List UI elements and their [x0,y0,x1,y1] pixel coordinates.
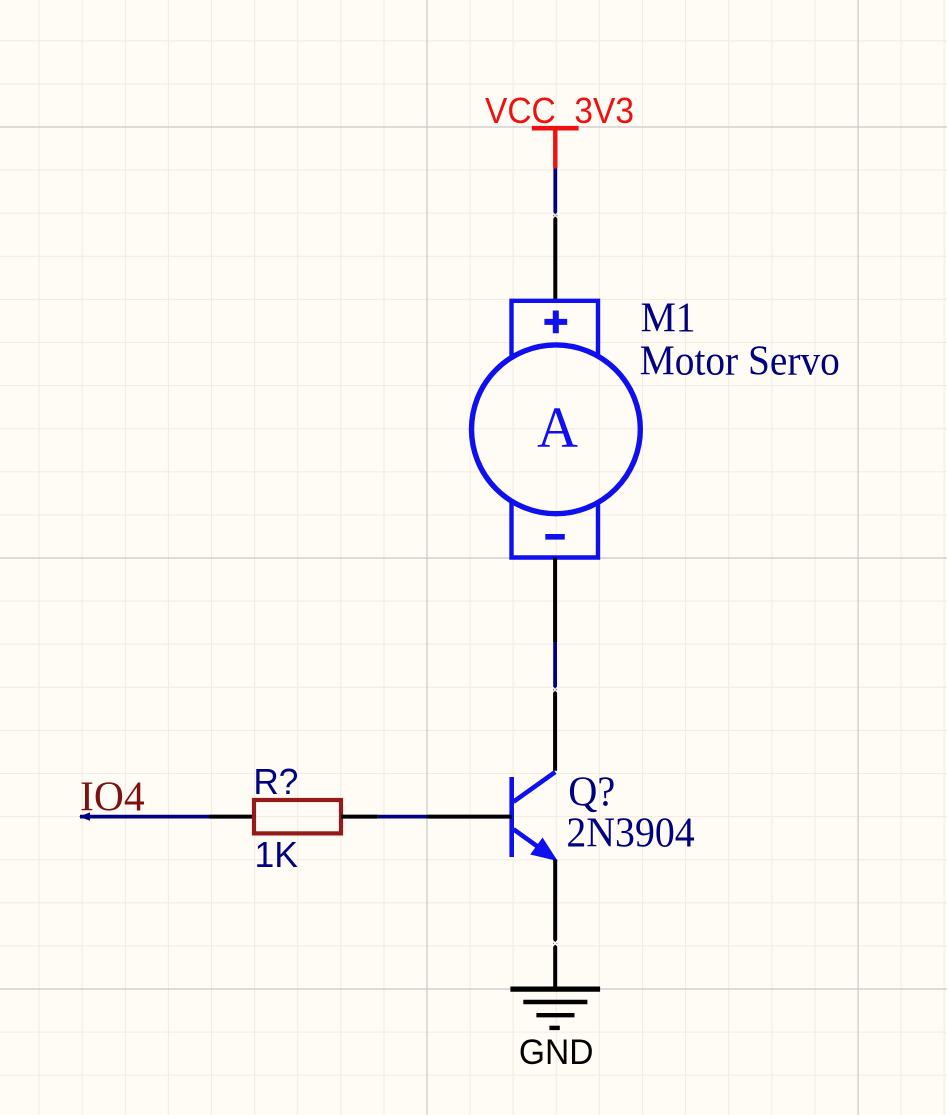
motor M1 top terminal box [512,301,599,356]
transistor Q? base pin [428,815,512,819]
svg-text:A: A [537,395,578,460]
motor M1 minus mark [545,534,565,540]
svg-text:Q?: Q? [568,769,615,816]
pin end marker (emitter) [551,940,559,948]
resistor R? pin 1 [210,815,255,819]
wire VCC_3V3 to motor + [553,168,557,215]
transistor Q? emitter pin [553,860,557,987]
motor M1 pin + (pin 1) [553,215,557,300]
ground symbol bar 2 [523,1000,587,1004]
pin end marker (motor +) [552,212,560,220]
ground symbol bar 3 [536,1013,574,1017]
power symbol VCC_3V3 bar [532,126,579,131]
svg-text:1K: 1K [255,834,299,875]
transistor Q? emitter arrowhead [532,839,556,859]
ground symbol bar 1 [510,986,600,991]
wire resistor to base [378,815,428,819]
pin end marker (collector) [551,686,559,694]
transistor Q? base bar [509,777,514,857]
svg-text:VCC_3V3: VCC_3V3 [485,90,634,131]
svg-text:2N3904: 2N3904 [566,810,694,857]
transistor Q? collector stroke [514,772,556,802]
ground symbol bar 4 [549,1026,559,1030]
resistor R? body [254,800,341,833]
svg-text:M1: M1 [641,294,696,341]
wire motor - to collector [553,642,557,690]
svg-text:Motor Servo: Motor Servo [640,337,840,384]
net IO4 wire end arrow [79,812,90,820]
svg-text:R?: R? [253,761,298,802]
motor M1 body circle [472,345,641,514]
resistor R? pin 2 [341,815,378,819]
power symbol VCC_3V3 pin [553,128,557,168]
wire IO4 to resistor R? [80,815,210,819]
svg-text:GND: GND [519,1033,594,1072]
motor M1 bottom terminal box [512,503,599,558]
motor M1 plus mark [544,311,567,334]
transistor Q? emitter stroke [514,829,549,854]
transistor Q? collector pin [553,690,557,771]
motor M1 pin - (pin 2) [553,558,557,643]
